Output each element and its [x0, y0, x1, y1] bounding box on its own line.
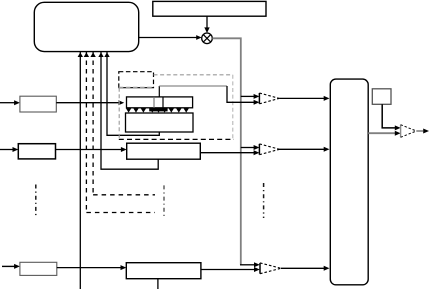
tap arrowheads (filled): [126, 108, 189, 113]
wire: channel filter N to multiplier 3: [201, 267, 260, 272]
combiner block (tall rounded rect): [330, 79, 368, 285]
wire: multiplier 3 to combiner: [281, 266, 330, 271]
channel filter N box: [126, 263, 201, 279]
multiplier 3 (dashed triangle): [260, 263, 281, 274]
input port N arrow: [2, 264, 20, 269]
gray dashed channel region left edge: [118, 88, 120, 139]
input port 2 arrow: [0, 147, 18, 152]
ellipsis mark right: [263, 183, 265, 218]
bus line A (solid): [78, 52, 83, 289]
input block N: [20, 262, 57, 275]
output multiplier (dashed triangle): [401, 125, 417, 138]
bus line D (solid, to channel filter 2): [98, 52, 158, 169]
reference generator box U2: [153, 1, 266, 16]
bus line B (dashed): [84, 52, 155, 213]
wire: mixer branch to multiplier 2: [241, 145, 260, 150]
output arrow: [416, 129, 429, 134]
bus line C (dashed): [90, 52, 155, 195]
bus line E (solid, to weight box): [104, 52, 159, 135]
wire: combiner to output multiplier (gray): [368, 131, 400, 136]
wire: reference box to mixer: [204, 16, 209, 33]
wire: mixer branch to multiplier 1: [241, 94, 260, 99]
multiplier 1 (dashed triangle): [259, 93, 279, 104]
channel filter 2 box: [127, 143, 201, 159]
wire: input block 1 to tapped delay line: [56, 100, 124, 105]
wire: control unit to mixer: [139, 35, 202, 40]
coefficient box (small square): [372, 89, 391, 105]
input port 1 arrow: [0, 100, 20, 105]
ellipsis mark left: [35, 185, 37, 218]
tapped delay line box: [127, 97, 193, 108]
wire: multiplier 2 to combiner: [280, 147, 330, 152]
wire: input block 2 to channel filter 2: [56, 147, 127, 152]
wire: input block N to channel filter N: [57, 265, 127, 270]
dashed option box (black dashed): [119, 72, 154, 88]
multiplier 2 (dashed triangle): [259, 144, 279, 155]
gray dashed overlap on option box bottom: [119, 87, 154, 89]
wire: channel filter 2 to multiplier 2: [200, 150, 259, 155]
ellipsis mark middle: [163, 185, 165, 217]
wire: multiplier 1 to combiner: [279, 96, 329, 101]
wire: delay line output up-over to multiplier 1: [159, 86, 259, 105]
wire: mixer output distribution (gray): [212, 38, 241, 264]
control unit U1: [34, 2, 138, 51]
input block 1: [20, 96, 56, 112]
mixer X1: [202, 33, 213, 44]
weight/sum box: [126, 113, 194, 132]
wire: mixer branch to multiplier 3: [240, 262, 260, 267]
wire: channel filter N bottom stub: [157, 279, 159, 289]
black dashed channel region bottom edge: [119, 138, 234, 140]
gray dashed channel region right edge: [232, 75, 234, 139]
wire: coefficient box to output multiplier: [382, 104, 400, 130]
input block 2: [18, 144, 55, 159]
gray dashed channel region top edge: [154, 74, 233, 76]
